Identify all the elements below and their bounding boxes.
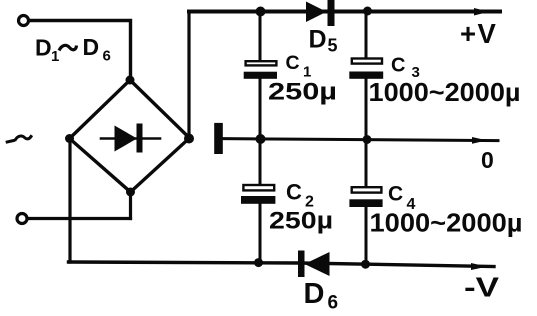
wire bridge bottom vertex down [129,192,132,219]
capacitor C4 bottom plate (solid) [349,199,382,207]
node C1 top on +V rail [256,7,266,17]
svg-text:D: D [83,34,100,60]
svg-text:250µ: 250µ [268,79,337,106]
svg-text:D: D [309,26,327,54]
wire C1 bottom lead [259,78,262,137]
wire top terminal to bridge top vertex [31,21,131,81]
wire -V bottom rail [69,262,495,267]
wire bridge right vertex up to +V rail [187,12,190,139]
svg-text:1000~2000µ: 1000~2000µ [370,208,523,238]
svg-text:C: C [388,183,403,206]
node bridge left vertex [65,134,74,143]
AC source squiggle dash [7,141,13,142]
node C1-C2 on 0 rail [256,134,266,144]
diode symbol inside bridge: cathode bar [137,124,143,153]
center-tap terminal bar on 0 rail [214,123,223,154]
wire 0 middle rail [223,139,498,141]
wire bridge left vertex down to -V rail [68,139,71,262]
svg-text:-V: -V [464,272,499,303]
svg-text:+V: +V [460,18,497,49]
label D1~D6 [35,34,111,65]
arrowhead 0 rail [472,137,487,144]
wire +V top rail [189,10,500,14]
capacitor C4 top plate (hollow) [352,187,382,192]
capacitor C2 bottom plate (solid) [241,196,275,204]
arrowhead +V rail [474,8,489,16]
diode symbol inside bridge: lead line [101,137,160,140]
wire C2 bottom lead [259,203,262,263]
capacitor C1 top plate (hollow) [246,61,277,65]
AC source squiggle tilde [16,136,32,140]
diode D6 triangle [305,252,330,276]
wire C1 top lead [259,13,262,61]
svg-text:6: 6 [328,293,339,314]
terminal AC input bottom circle [17,214,27,224]
arrowhead -V rail [471,263,487,270]
svg-text:1000~2000µ: 1000~2000µ [369,77,521,107]
node bridge right vertex [184,134,194,144]
wire bottom terminal to bridge bottom [29,217,131,220]
node bridge bottom vertex [126,188,135,197]
terminal AC input top circle [19,16,29,26]
svg-text:C: C [391,55,405,77]
svg-text:D: D [304,278,325,310]
node bridge top vertex [126,76,135,85]
bridge rectifier diamond D1~D6 [70,80,190,192]
node C4 bottom on -V rail [361,260,370,269]
svg-text:5: 5 [328,36,338,56]
svg-text:C: C [286,180,302,205]
capacitor C3 top plate (hollow) [352,59,382,64]
capacitor C2 top plate (hollow) [243,185,274,190]
diode D5 cathode bar [328,0,335,26]
diode D5 triangle [306,2,327,23]
svg-text:D: D [35,35,52,61]
svg-text:0: 0 [481,147,494,173]
svg-text:250µ: 250µ [269,208,333,235]
wire C4 bottom lead [365,207,368,265]
svg-text:6: 6 [103,48,111,65]
wire C2 top lead [259,140,262,185]
node C3-C4 on 0 rail [363,135,372,144]
svg-text:C: C [286,52,300,74]
capacitor C3 bottom plate (solid) [349,72,383,79]
capacitor C1 bottom plate (solid) [244,72,277,79]
diode D6 cathode bar [298,251,305,278]
node C2 bottom on -V rail [254,258,263,267]
diode symbol inside bridge: triangle [115,126,138,152]
wire C4 top lead [365,141,368,187]
node C3 top on +V rail [363,7,372,16]
wire C3 bottom lead [365,79,368,139]
wire C3 top lead [365,13,368,58]
svg-text:1: 1 [51,48,59,65]
